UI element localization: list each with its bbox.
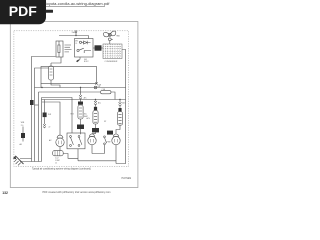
- svg-text:PDF created with pdfFactory tr: PDF created with pdfFactory trial versio…: [43, 191, 111, 194]
- fuse F1: [58, 41, 60, 57]
- svg-text:22: 22: [49, 127, 51, 129]
- radiator fan motor M3: [113, 134, 118, 137]
- bus wire H3: [42, 98, 73, 134]
- svg-text:CL: CL: [75, 43, 77, 45]
- svg-text:C-52: C-52: [55, 157, 59, 159]
- connector C12 dark: [95, 45, 102, 50]
- connector labels C1: [65, 45, 72, 52]
- bus wire H2 with fuse F2: [39, 92, 116, 100]
- inline connector IG: [94, 86, 97, 89]
- svg-text:COMP: COMP: [55, 160, 60, 162]
- bus wire H5: [42, 102, 60, 135]
- chassis ground bottom-left: [20, 159, 42, 162]
- schematic frame: [14, 31, 129, 167]
- A/C fan relay R1: [75, 39, 94, 58]
- tiny labels: [20, 31, 127, 165]
- svg-text:toyota-corolla-ac-wiring-diagr: toyota-corolla-ac-wiring-diagram.pdf: [46, 1, 111, 6]
- toolbar dash: [46, 10, 54, 13]
- wire W2 stub: [35, 104, 39, 106]
- svg-text:12: 12: [55, 163, 57, 165]
- wire condenser to right bus: [116, 50, 126, 164]
- svg-text:132: 132: [2, 191, 8, 195]
- ground G1 below relay: [76, 57, 80, 62]
- connector dark mid: [43, 113, 47, 118]
- svg-text:A6: A6: [20, 143, 22, 146]
- thermo switch SW: [104, 136, 106, 138]
- VSV solenoid V2: [119, 100, 122, 108]
- svg-text:DP: DP: [104, 121, 106, 123]
- connector dark near switch: [107, 131, 113, 135]
- bus wire H1: [35, 87, 126, 89]
- control unit box B2: [41, 67, 97, 84]
- bus wire H4: [42, 99, 126, 101]
- PDF badge: [0, 0, 46, 24]
- wire top feed: [59, 36, 89, 39]
- svg-text:IG1: IG1: [98, 86, 101, 88]
- svg-text:PDF: PDF: [9, 3, 37, 19]
- svg-text:PSW: PSW: [107, 142, 111, 144]
- condenser fan motor FM1: [103, 31, 116, 37]
- svg-text:Typical air conditioning syste: Typical air conditioning system wiring d…: [32, 168, 91, 171]
- condenser fan motor M2: [89, 134, 94, 137]
- bottom bus wire: [60, 145, 116, 164]
- svg-text:CONDENSER: CONDENSER: [105, 61, 118, 63]
- receiver drier chain: [79, 88, 82, 102]
- junction G8: [95, 82, 97, 84]
- fusible link P1: [49, 66, 54, 80]
- compressor clutch M1: [57, 135, 63, 138]
- ground verticals: [39, 92, 42, 162]
- ACV solenoid V1: [94, 100, 97, 107]
- pressure switch box PS: [67, 133, 85, 149]
- svg-text:2.0: 2.0: [21, 125, 24, 127]
- svg-text:G01: G01: [84, 59, 87, 61]
- fuse 15A stub: [75, 33, 77, 36]
- wire W2 to ground: [35, 68, 49, 162]
- condenser coil: [103, 44, 122, 59]
- connector C pill: [53, 151, 64, 156]
- svg-text:HAYNES: HAYNES: [122, 177, 132, 180]
- connector dark on W1: [30, 100, 34, 105]
- page sheet: [10, 22, 138, 188]
- junction block J/B: [56, 41, 63, 57]
- wire W1 to ground: [32, 57, 56, 159]
- left stub wire A6: [22, 127, 24, 142]
